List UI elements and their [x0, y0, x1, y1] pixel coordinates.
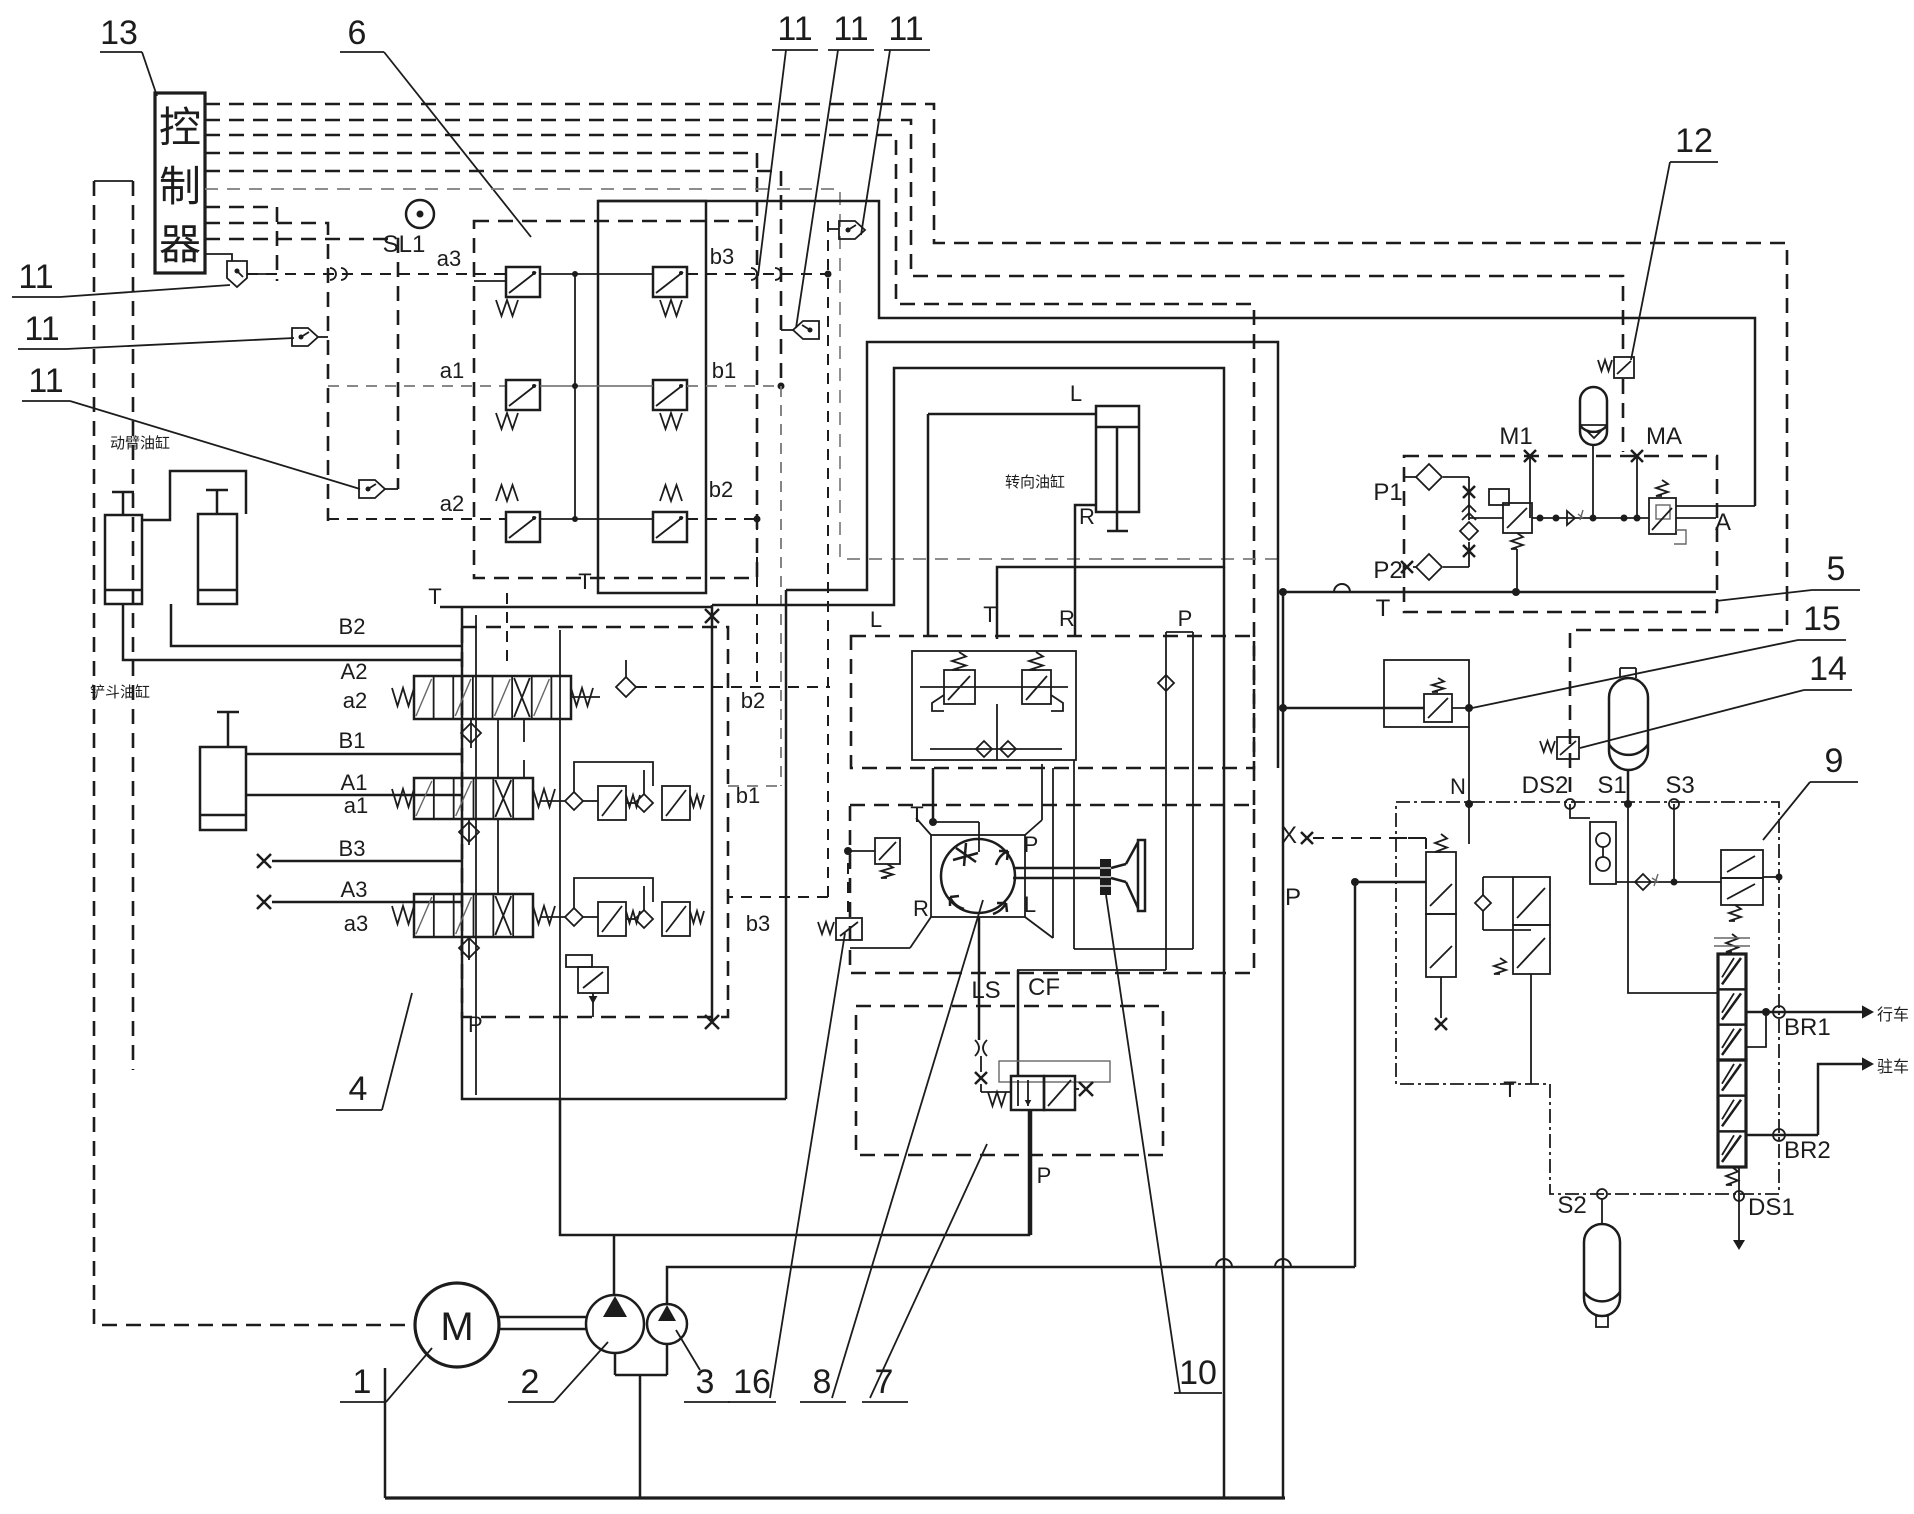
- svg-text:A1: A1: [341, 770, 368, 795]
- svg-text:a1: a1: [440, 358, 464, 383]
- steering cylinder: [1096, 406, 1139, 512]
- svg-text:9: 9: [1825, 742, 1844, 780]
- steering unit arrows: [996, 851, 1008, 865]
- overload block inner frame: [912, 651, 1076, 760]
- pilot line b2 to valve 4: [687, 518, 757, 520]
- solenoid valve 16: [836, 918, 862, 940]
- priority valve block 7 dashed boundary: [856, 1006, 1163, 1155]
- pilot pump: [647, 1304, 687, 1344]
- S1 to brake valve: [1628, 804, 1718, 993]
- controller wire 5 (to b1 pilot column): [205, 171, 781, 386]
- controller wire 8 (to a1/a2 rows): [205, 223, 328, 521]
- svg-text:11: 11: [24, 310, 59, 348]
- pump suction: [615, 1344, 667, 1497]
- svg-text:N: N: [1450, 774, 1466, 799]
- steering unit dashed boundary: [850, 805, 1254, 973]
- wire A3 plugged: [257, 895, 271, 909]
- svg-text:P: P: [1178, 606, 1193, 631]
- steering unit metering star: [953, 843, 978, 866]
- svg-text:行车: 行车: [1877, 1006, 1909, 1024]
- signal lamp SL1: [406, 200, 434, 228]
- pilot line a1: [328, 385, 506, 387]
- svg-text:B2: B2: [339, 614, 366, 639]
- compensator a3: [565, 908, 583, 926]
- boom cylinder head pipe: [142, 471, 246, 520]
- plug X top: [705, 609, 719, 623]
- svg-text:T: T: [1503, 1077, 1516, 1102]
- svg-text:B3: B3: [339, 836, 366, 861]
- svg-text:A: A: [1715, 509, 1731, 536]
- overload relief R: [1022, 670, 1051, 704]
- boom cylinder right: [198, 514, 237, 604]
- LS line: [978, 917, 981, 1040]
- pilot valve block 6 dashed boundary: [474, 221, 757, 578]
- controller wire 9 (to sensor 11 lower): [205, 239, 398, 489]
- svg-text:器: 器: [159, 221, 201, 268]
- wire stub left of controller: [94, 180, 133, 182]
- wire B2: [171, 604, 462, 646]
- svg-text:S1: S1: [1597, 772, 1626, 799]
- svg-text:X: X: [1281, 822, 1297, 849]
- valve block 4 outer frame: [440, 606, 712, 609]
- svg-text:5: 5: [1827, 550, 1846, 588]
- svg-text:a2: a2: [440, 491, 464, 516]
- steering unit port wires: [933, 821, 979, 823]
- pilot line a3: [247, 273, 506, 275]
- svg-text:T: T: [1376, 595, 1391, 622]
- return line B: [1282, 592, 1285, 1497]
- valve 6 row link a2-b2: [540, 518, 653, 520]
- svg-text:14: 14: [1809, 650, 1847, 688]
- pilot check a1: [459, 822, 479, 842]
- svg-text:1: 1: [353, 1363, 372, 1401]
- valve block 4 dashed boundary: [462, 627, 728, 1017]
- main relief valve block4: [578, 967, 608, 993]
- solenoid valve 14: [1557, 737, 1579, 759]
- svg-text:b3: b3: [710, 244, 734, 269]
- return line A: [1223, 567, 1226, 1497]
- svg-text:2: 2: [521, 1363, 540, 1401]
- solenoid valve b2: [653, 512, 687, 542]
- valve 6 row link a3-b3: [540, 273, 653, 275]
- motor-pump shaft: [499, 1316, 586, 1319]
- plug X bottom: [705, 1015, 719, 1029]
- accumulator block5: [1580, 387, 1607, 445]
- priority valve P output: [1030, 1110, 1033, 1235]
- CF line: [1017, 970, 1020, 1076]
- pilot line a2: [328, 518, 506, 520]
- cutoff valve block9: [1426, 852, 1456, 914]
- svg-text:a1: a1: [344, 793, 368, 818]
- spool valve a2 (boom): [414, 676, 571, 719]
- svg-text:a3: a3: [437, 246, 461, 271]
- svg-text:T: T: [428, 584, 441, 609]
- svg-text:4: 4: [349, 1070, 368, 1108]
- svg-text:S3: S3: [1665, 772, 1694, 799]
- port BR1: [1746, 1011, 1862, 1014]
- svg-text:A3: A3: [341, 877, 368, 902]
- pilot line b3 to valve 4: [687, 273, 828, 275]
- brake valve upper section: [1718, 954, 1746, 1060]
- valve 6 collector line: [574, 274, 576, 519]
- svg-text:T: T: [983, 602, 996, 627]
- svg-text:BR2: BR2: [1784, 1137, 1831, 1164]
- spool valve a1 (bucket): [414, 778, 533, 819]
- steering shaft: [1013, 867, 1100, 870]
- port DS1: [1738, 1167, 1740, 1240]
- steering unit diagonals: [910, 818, 1053, 948]
- svg-text:T: T: [578, 569, 591, 594]
- interstage link: [1746, 1012, 1766, 1047]
- main pump discharge: [613, 1235, 616, 1295]
- overload cross line: [920, 686, 1068, 688]
- solenoid valve b1: [653, 380, 687, 410]
- svg-text:SL1: SL1: [383, 231, 426, 258]
- solenoid valve a3: [506, 267, 540, 297]
- pilot valve block 6 inner frame: [598, 201, 706, 593]
- relief valve 15: [1283, 707, 1424, 710]
- compensator a1: [565, 792, 583, 810]
- controller wire 2 (to solenoid 12): [205, 120, 1623, 355]
- steering unit rotor circle: [941, 839, 1015, 913]
- svg-text:M: M: [440, 1305, 473, 1349]
- svg-text:15: 15: [1803, 600, 1841, 638]
- steering P channel: [1165, 632, 1167, 970]
- controller wire 1 (to brake pilot block): [205, 104, 1787, 800]
- valve 6 row link a1-b1: [540, 385, 653, 387]
- svg-text:11: 11: [777, 10, 812, 48]
- wire B3 plugged: [257, 854, 271, 868]
- svg-text:b3: b3: [746, 911, 770, 936]
- overload relief L: [944, 670, 975, 704]
- pilot check a3: [459, 938, 479, 958]
- block4 internal gallery 2: [559, 630, 561, 1099]
- controller wire 3 (to solenoid 16 / steering block): [205, 135, 1254, 805]
- steering anti-shock relief: [875, 838, 900, 864]
- solenoid valve b3: [653, 267, 687, 297]
- svg-text:8: 8: [813, 1363, 832, 1401]
- controller wire 4 (to b2 pilot column): [205, 153, 757, 221]
- steering joint: [1100, 859, 1111, 895]
- svg-text:R: R: [1059, 606, 1075, 631]
- svg-text:6: 6: [348, 14, 367, 52]
- A port riser: [1676, 505, 1755, 507]
- svg-text:R: R: [1079, 504, 1095, 529]
- electric motor M: [415, 1283, 499, 1367]
- svg-text:L: L: [1024, 892, 1036, 917]
- port S2: [1597, 1189, 1607, 1199]
- svg-text:CF: CF: [1028, 974, 1060, 1001]
- svg-text:11: 11: [28, 362, 63, 400]
- steering wheel: [1111, 864, 1126, 882]
- port BR2: [1746, 1134, 1818, 1137]
- svg-text:BR1: BR1: [1784, 1014, 1831, 1041]
- brake valve lower section: [1718, 1060, 1746, 1167]
- svg-text:动臂油缸: 动臂油缸: [110, 434, 170, 452]
- port S3: [1669, 799, 1679, 809]
- svg-text:12: 12: [1675, 122, 1713, 160]
- manifold line: [1532, 517, 1649, 519]
- svg-text:P: P: [1024, 832, 1039, 857]
- spool valve a3 (aux): [414, 894, 533, 937]
- svg-text:MA: MA: [1646, 423, 1682, 450]
- port S1: [1624, 800, 1632, 808]
- svg-text:b2: b2: [741, 688, 765, 713]
- block4 b1 pilot line: [728, 785, 781, 787]
- controller wire 7 (to sensor a3 row): [205, 207, 277, 281]
- steering outer frame: [786, 342, 1278, 768]
- svg-text:11: 11: [833, 10, 868, 48]
- svg-text:转向油缸: 转向油缸: [1005, 473, 1065, 491]
- pressure sensor 11 (a3): [227, 261, 247, 287]
- svg-text:11: 11: [888, 10, 923, 48]
- svg-text:M1: M1: [1499, 423, 1532, 450]
- svg-text:13: 13: [100, 14, 138, 52]
- overload suction checks: [930, 748, 1062, 750]
- svg-text:T: T: [910, 802, 923, 827]
- tank line: [385, 1496, 1285, 1499]
- left inner dashed wire: [132, 181, 135, 1070]
- solenoid valve 12: [1614, 357, 1634, 378]
- steering unit T junction: [929, 818, 937, 826]
- svg-text:L: L: [1070, 381, 1082, 406]
- svg-text:a2: a2: [343, 688, 367, 713]
- reducing valve block9: [1513, 877, 1550, 925]
- pressure reducing valve 5a: [1503, 503, 1532, 533]
- check chain block9: [1616, 881, 1721, 883]
- steering unit square: [931, 835, 1025, 917]
- steering feed riser: [1354, 882, 1357, 1267]
- block4 b2 pilot line: [636, 686, 830, 688]
- svg-text:DS2: DS2: [1522, 772, 1569, 799]
- svg-text:LS: LS: [971, 977, 1000, 1004]
- solenoid valve a2: [506, 512, 540, 542]
- overload valve block dashed boundary: [851, 636, 1254, 768]
- test point M1: [1524, 450, 1536, 462]
- svg-text:P1: P1: [1373, 479, 1402, 506]
- controller wire 6 (light, to steering module): [205, 189, 1278, 559]
- svg-text:a3: a3: [344, 911, 368, 936]
- pilot drop to spool a2: [506, 593, 508, 668]
- svg-text:L: L: [870, 607, 882, 632]
- check chain: [1468, 477, 1470, 520]
- block4 b3 pilot line: [728, 896, 828, 898]
- steering inner frame: [712, 368, 1224, 639]
- N junction: [1468, 727, 1470, 844]
- bucket cylinder: [200, 747, 246, 830]
- pilot check a2: [461, 723, 481, 743]
- pressure sensor 11 (b3): [839, 221, 865, 239]
- pilot line b1 to valve 4: [687, 385, 781, 387]
- svg-text:A2: A2: [341, 659, 368, 684]
- wire A2: [123, 604, 462, 660]
- steering cylinder R pipe: [1075, 505, 1096, 636]
- svg-text:P: P: [1037, 1163, 1052, 1188]
- pump supply to valve 4: [560, 1099, 614, 1235]
- main pump: [586, 1295, 644, 1353]
- test point MA: [1631, 450, 1643, 462]
- svg-text:P: P: [1285, 884, 1301, 911]
- pressure sensor 11 (lower): [359, 480, 385, 498]
- DS2 pressure switch: [1570, 804, 1590, 818]
- boom cylinder left: [105, 515, 142, 604]
- svg-text:B1: B1: [339, 728, 366, 753]
- svg-text:铲斗油缸: 铲斗油缸: [90, 683, 150, 701]
- controller box (Chinese: controller): [155, 93, 205, 273]
- T return from brake valve 5: [1283, 591, 1716, 594]
- unloader valve block9: [1721, 850, 1763, 878]
- priority valve: [1011, 1076, 1044, 1110]
- port DS2: [1565, 799, 1575, 809]
- priority valve pilot loop: [999, 1061, 1110, 1082]
- left outer dashed wire (to motor): [94, 181, 414, 1325]
- svg-text:制: 制: [159, 163, 201, 210]
- svg-text:DS1: DS1: [1748, 1194, 1795, 1221]
- steering cylinder L pipe: [928, 413, 1096, 416]
- svg-text:控: 控: [159, 104, 201, 151]
- check to b2 line: [616, 677, 636, 697]
- svg-text:驻车: 驻车: [1877, 1058, 1909, 1076]
- pressure sensor 11 (a1): [292, 328, 318, 346]
- svg-text:11: 11: [18, 258, 53, 296]
- brake block 9 boundary: [1396, 802, 1779, 1194]
- accumulator S1: [1609, 678, 1648, 770]
- block4 spool risers: [497, 719, 499, 778]
- pressure sensor 11 (b1): [793, 321, 819, 339]
- T wire from pilot block to brake valve 5: [598, 201, 1755, 506]
- svg-text:S2: S2: [1557, 1192, 1586, 1219]
- svg-text:b2: b2: [709, 477, 733, 502]
- charge valve 5b: [1649, 498, 1676, 534]
- svg-text:16: 16: [733, 1363, 771, 1401]
- accumulator S2: [1601, 1199, 1603, 1224]
- svg-text:R: R: [913, 896, 929, 921]
- svg-text:10: 10: [1179, 1354, 1217, 1392]
- svg-text:P2: P2: [1373, 557, 1402, 584]
- svg-text:b1: b1: [712, 358, 736, 383]
- b3 pilot column: [827, 221, 829, 897]
- block4 internal gallery 1: [475, 615, 477, 1095]
- svg-text:b1: b1: [736, 783, 760, 808]
- wire A1: [246, 794, 462, 797]
- wire B1: [246, 753, 462, 756]
- solenoid valve a1: [506, 380, 540, 410]
- brake charge block 5 dashed boundary: [1404, 456, 1717, 612]
- pilot pump discharge: [667, 1267, 1355, 1304]
